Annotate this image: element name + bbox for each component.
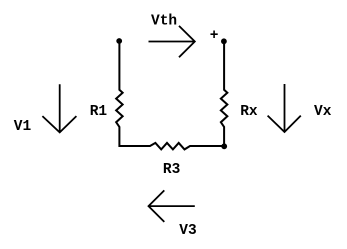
svg-text:+: + bbox=[210, 28, 219, 44]
svg-text:R3: R3 bbox=[163, 162, 180, 178]
svg-text:Rx: Rx bbox=[240, 104, 258, 120]
svg-text:R1: R1 bbox=[90, 104, 108, 120]
svg-text:Vth: Vth bbox=[151, 14, 177, 30]
svg-text:Vx: Vx bbox=[314, 104, 332, 120]
svg-text:V1: V1 bbox=[14, 119, 32, 135]
svg-text:V3: V3 bbox=[179, 223, 196, 239]
